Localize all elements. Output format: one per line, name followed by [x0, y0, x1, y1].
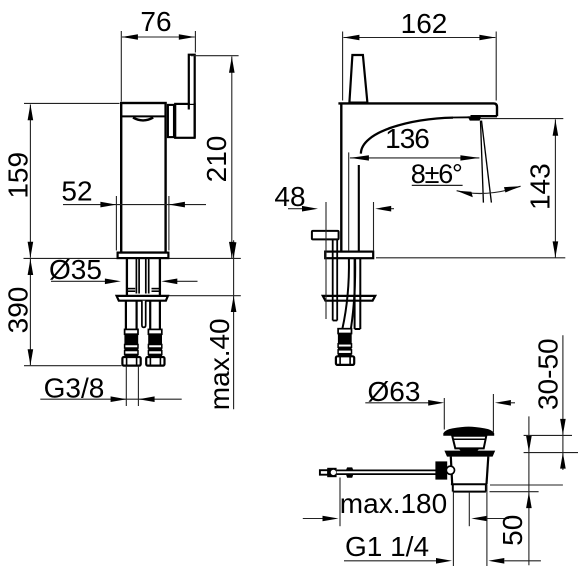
cartridge neck [168, 105, 174, 137]
right supply hose tube [149, 301, 151, 331]
front hose end fitting [336, 329, 354, 365]
aerator lens [133, 118, 153, 121]
extension line cap bottom (30-50) [524, 434, 572, 436]
extension line 159 top [24, 102, 120, 104]
drain cap dome [443, 427, 494, 436]
dimension 159 [3, 104, 34, 258]
hose lines inside shank [135, 259, 137, 294]
svg-text:48: 48 [274, 181, 305, 212]
left supply hose tube [125, 301, 127, 331]
svg-text:8±6°: 8±6° [411, 159, 462, 189]
seat flange [444, 451, 495, 457]
svg-text:390: 390 [3, 287, 34, 334]
pull rod vertical [332, 239, 334, 320]
handle lever (side) [349, 55, 367, 103]
body front edge [340, 104, 342, 252]
svg-text:52: 52 [61, 176, 92, 207]
dimension 8±6° [411, 159, 521, 197]
spout underside curve [361, 118, 453, 154]
tail pipe stub [452, 484, 454, 491]
shank inner steps [127, 288, 135, 290]
dimension Ø63 [365, 376, 515, 433]
dimension max.180 [303, 478, 509, 527]
extension line flange top (max.40) [168, 295, 241, 297]
dimension max.40 [204, 240, 236, 410]
spout underside right [471, 115, 498, 117]
aerator outlet [468, 116, 482, 120]
dimension 390 [3, 259, 34, 365]
extension line flange top (30-50 / 50) [524, 452, 578, 454]
water stream line 1 [481, 121, 484, 203]
dimension 48 [274, 181, 394, 319]
spout cap line [121, 115, 165, 117]
svg-text:76: 76 [140, 6, 171, 37]
spout underside thin segment [453, 116, 471, 118]
svg-text:143: 143 [525, 163, 556, 210]
mounting flange nut (side view) [323, 296, 375, 301]
dimension 52 [61, 176, 206, 251]
horizontal rod [337, 469, 436, 471]
ball joint at body [446, 466, 454, 474]
left hose end fitting G3/8 [122, 329, 140, 365]
svg-text:30-50: 30-50 [533, 338, 564, 410]
rear hose (side) [354, 258, 356, 329]
rod ball block [327, 468, 336, 477]
spout body block top [338, 103, 497, 116]
shank outer walls [126, 258, 128, 296]
dimension Ø35 [49, 254, 197, 285]
dimension 136 [349, 123, 480, 251]
svg-text:Ø63: Ø63 [368, 376, 421, 407]
faucet body [121, 103, 165, 253]
extension line 390 bottom [24, 365, 122, 367]
svg-text:G3/8: G3/8 [44, 373, 105, 404]
dimension 76 [121, 6, 195, 102]
column rear edge [358, 165, 360, 252]
extension line body bottom [490, 484, 563, 486]
dimension 143 [525, 119, 559, 257]
rod ball housing [435, 461, 447, 479]
svg-text:max.40: max.40 [204, 318, 235, 410]
mounting flange nut [117, 296, 168, 301]
handle escutcheon [175, 104, 194, 138]
handle lever [190, 55, 194, 104]
extension line aerator level (143 top) [474, 118, 563, 120]
svg-text:max.180: max.180 [340, 488, 447, 519]
svg-text:210: 210 [201, 136, 232, 183]
dimension 30-50 [533, 335, 566, 470]
rod thread collar [346, 467, 354, 470]
dimension 162 [343, 8, 497, 101]
extension line pipe end (50) [490, 491, 539, 493]
dimension G1 1/4 [344, 485, 541, 566]
front hose (side, curved) [342, 258, 349, 329]
svg-text:50: 50 [497, 515, 528, 546]
water stream line 2 [482, 121, 492, 203]
svg-text:159: 159 [3, 152, 34, 199]
drain pull knob [312, 231, 339, 240]
svg-text:162: 162 [401, 8, 448, 39]
drain body [451, 457, 452, 485]
dimension 210 [191, 56, 239, 259]
horizontal rod tip [320, 470, 328, 475]
deck line (countertop, left view) [24, 257, 241, 259]
base plate [118, 253, 169, 259]
svg-text:G1 1/4: G1 1/4 [345, 531, 429, 562]
dimension 50 [497, 416, 532, 565]
base plate (side) [325, 252, 373, 259]
right hose end fitting G3/8 [146, 329, 164, 365]
dimension G3/8 [40, 366, 181, 406]
svg-text:136: 136 [385, 123, 429, 154]
mounting stud with rounded tip [142, 301, 146, 328]
deck line right of base plate [376, 257, 565, 259]
svg-text:Ø35: Ø35 [49, 254, 102, 285]
drain neck [452, 436, 486, 449]
plug seal [459, 448, 480, 451]
